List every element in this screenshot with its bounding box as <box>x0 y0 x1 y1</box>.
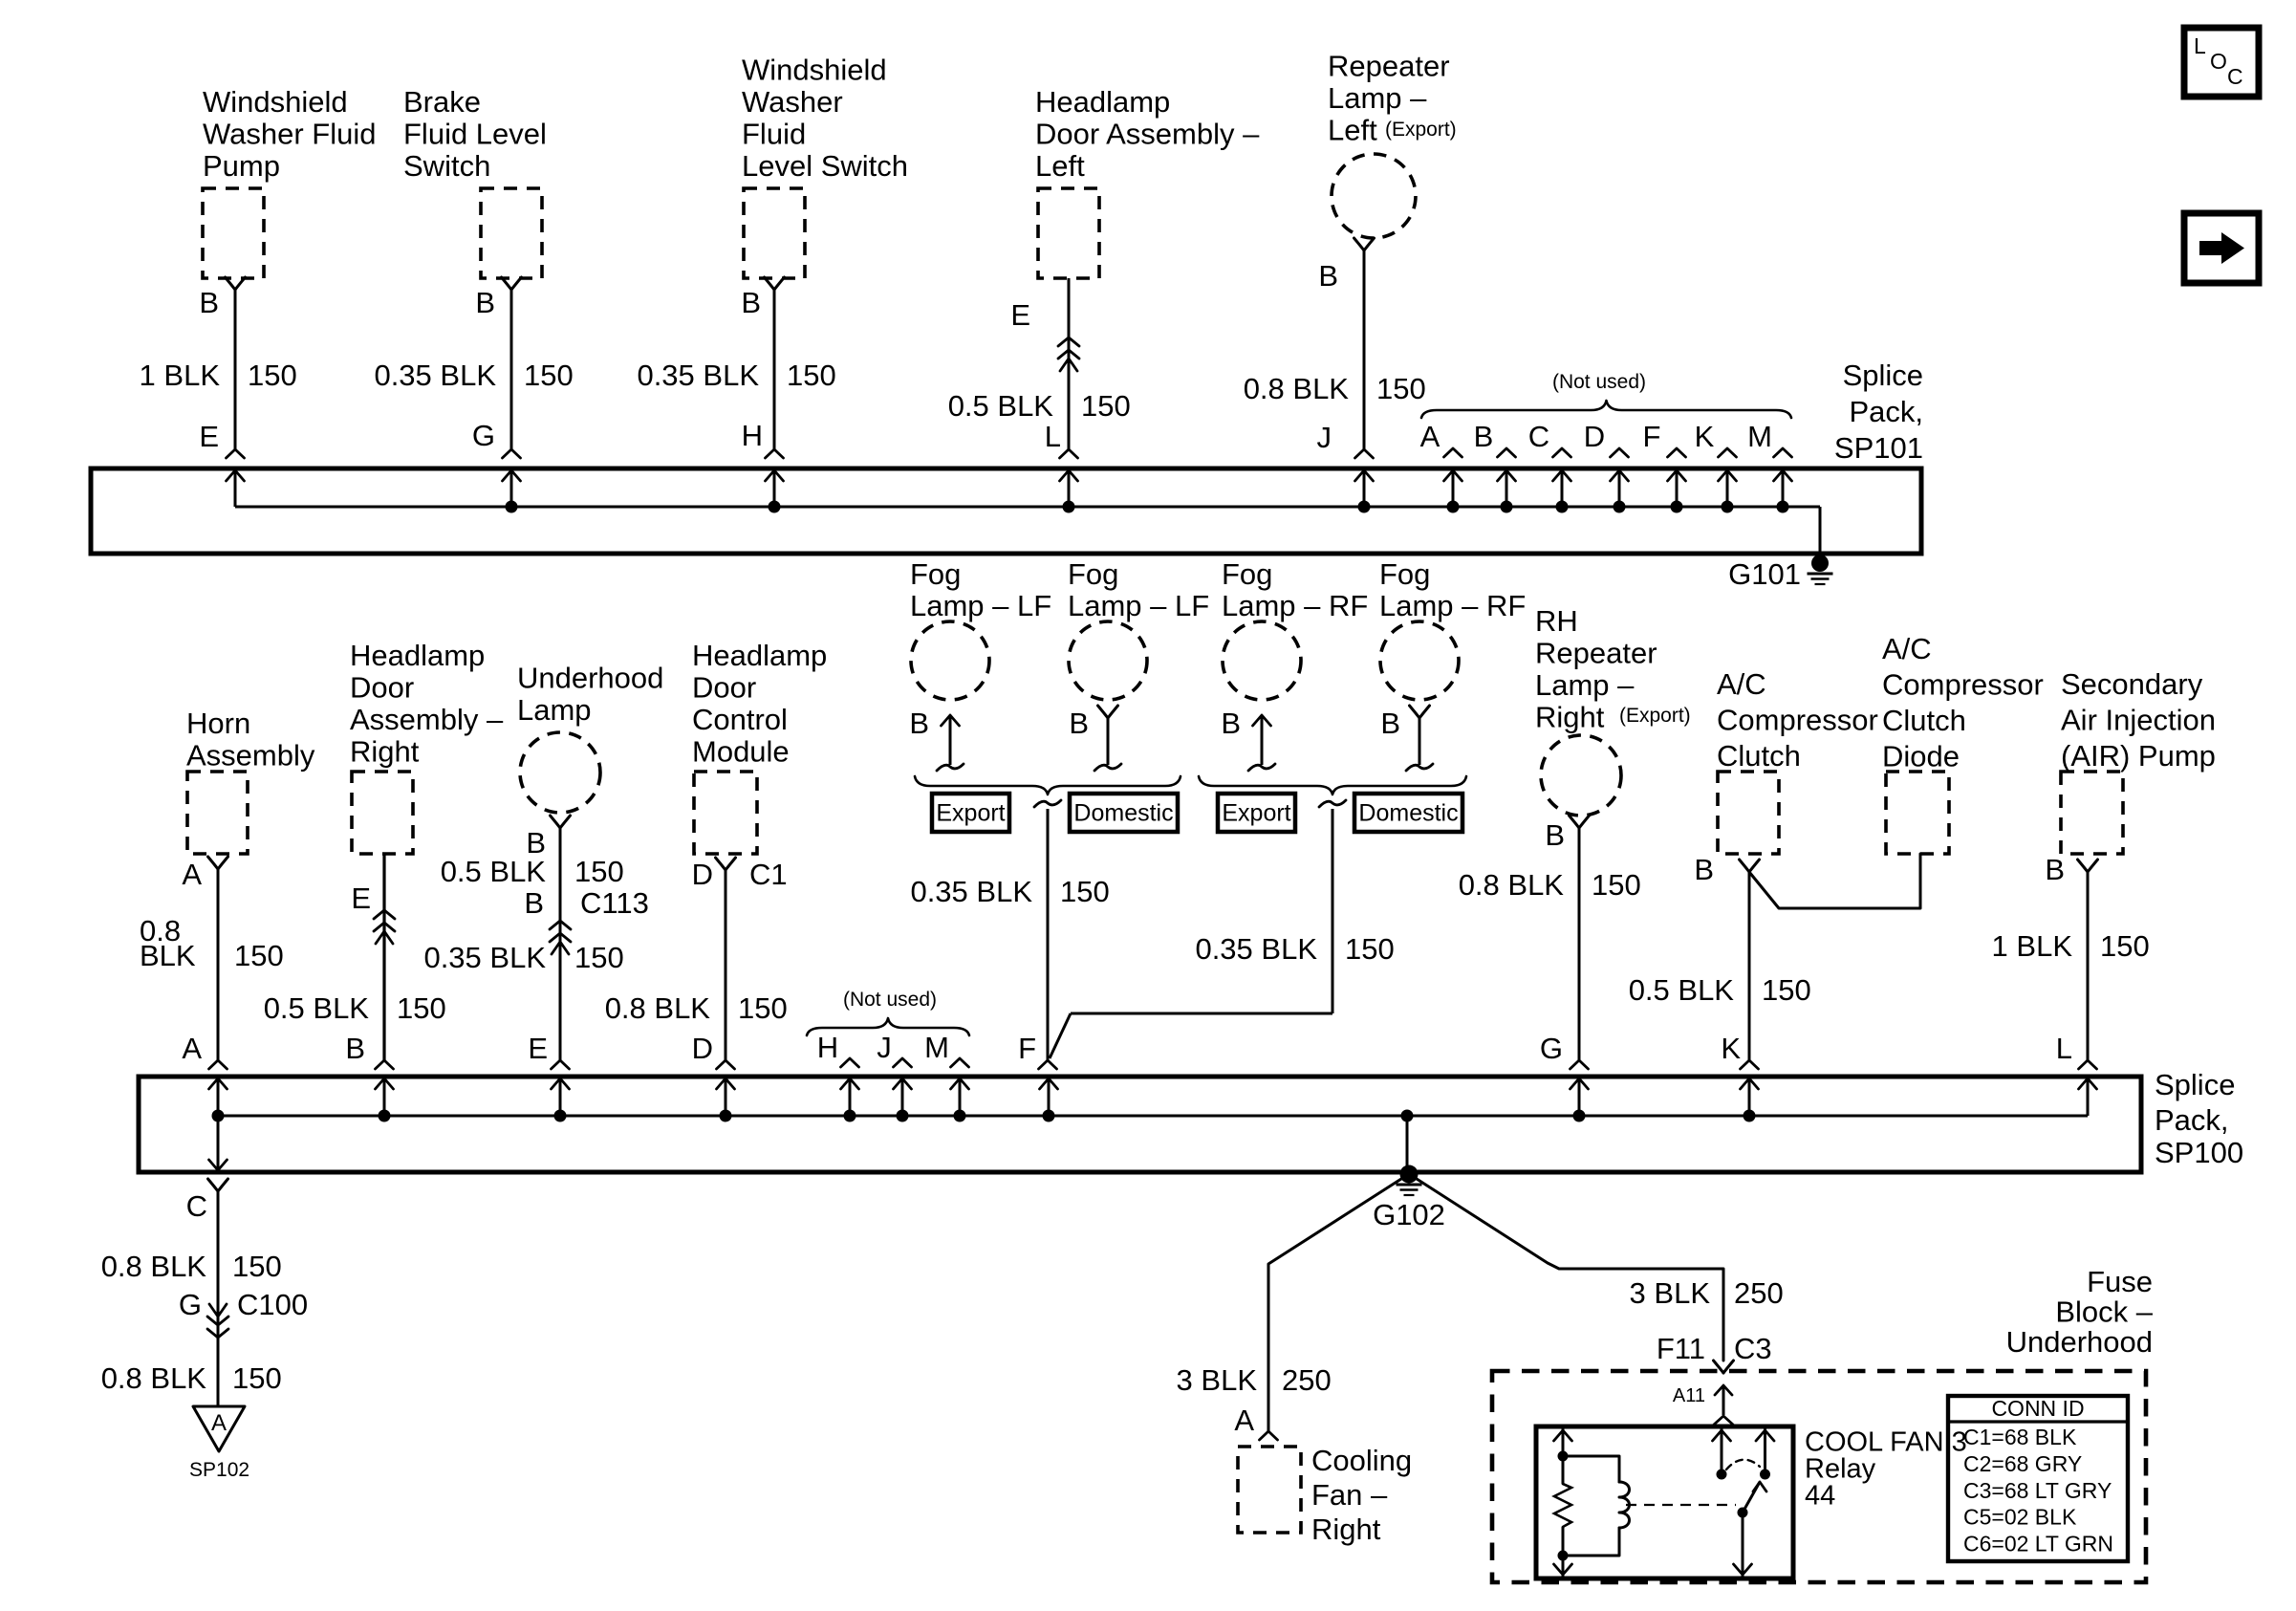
svg-text:K: K <box>1695 420 1715 453</box>
svg-text:0.8 BLK: 0.8 BLK <box>101 1250 207 1283</box>
svg-text:0.8 BLK: 0.8 BLK <box>1244 372 1350 405</box>
svg-text:150: 150 <box>2100 929 2150 963</box>
svg-text:D: D <box>692 858 713 891</box>
svg-text:150: 150 <box>1345 932 1395 966</box>
svg-text:Clutch: Clutch <box>1882 704 1966 737</box>
svg-text:250: 250 <box>1734 1276 1784 1310</box>
svg-text:Windshield: Windshield <box>203 85 348 119</box>
svg-text:L: L <box>2194 33 2206 58</box>
svg-text:B: B <box>1545 818 1565 852</box>
svg-text:B: B <box>524 886 544 920</box>
svg-text:(Not used): (Not used) <box>843 989 937 1011</box>
svg-text:Door: Door <box>350 670 414 704</box>
svg-text:Fog: Fog <box>1222 557 1272 591</box>
svg-text:150: 150 <box>397 991 446 1025</box>
svg-text:0.5 BLK: 0.5 BLK <box>264 991 370 1025</box>
svg-text:B: B <box>1221 707 1241 740</box>
svg-text:Headlamp: Headlamp <box>692 639 827 672</box>
svg-text:G: G <box>1540 1032 1563 1065</box>
svg-text:CONN ID: CONN ID <box>1991 1396 2084 1421</box>
svg-text:Level Switch: Level Switch <box>742 149 908 183</box>
svg-text:SP100: SP100 <box>2155 1136 2243 1169</box>
svg-text:C1: C1 <box>749 858 788 891</box>
svg-text:A: A <box>1234 1404 1254 1437</box>
svg-text:O: O <box>2210 49 2227 74</box>
svg-text:K: K <box>1721 1032 1741 1065</box>
svg-text:C5=02 BLK: C5=02 BLK <box>1963 1505 2077 1530</box>
svg-text:3 BLK: 3 BLK <box>1630 1276 1711 1310</box>
svg-text:250: 250 <box>1282 1363 1332 1397</box>
svg-text:C3=68 LT GRY: C3=68 LT GRY <box>1963 1478 2112 1503</box>
svg-text:Export: Export <box>1222 800 1290 827</box>
svg-text:E: E <box>351 882 371 915</box>
svg-text:Left: Left <box>1328 113 1377 146</box>
svg-text:150: 150 <box>524 359 574 392</box>
svg-text:Door: Door <box>692 670 756 704</box>
svg-text:150: 150 <box>234 939 284 972</box>
svg-text:(Not used): (Not used) <box>1552 371 1646 393</box>
svg-text:Control: Control <box>692 703 788 736</box>
svg-text:A/C: A/C <box>1717 667 1766 701</box>
svg-text:Left: Left <box>1035 149 1085 183</box>
svg-text:Diode: Diode <box>1882 739 1960 773</box>
svg-text:Pack,: Pack, <box>1849 395 1923 428</box>
svg-text:C1=68 BLK: C1=68 BLK <box>1963 1425 2077 1449</box>
svg-text:C100: C100 <box>237 1288 308 1321</box>
svg-text:Lamp: Lamp <box>517 693 592 727</box>
svg-text:D: D <box>1584 420 1605 453</box>
svg-text:C: C <box>186 1189 207 1223</box>
svg-text:150: 150 <box>574 941 624 974</box>
svg-text:0.35 BLK: 0.35 BLK <box>423 941 546 974</box>
svg-text:M: M <box>1747 420 1772 453</box>
svg-text:Windshield: Windshield <box>742 53 887 86</box>
svg-text:A/C: A/C <box>1882 632 1932 665</box>
svg-text:C6=02 LT GRN: C6=02 LT GRN <box>1963 1531 2113 1556</box>
svg-text:L: L <box>2056 1032 2072 1065</box>
svg-text:B: B <box>2045 853 2065 886</box>
svg-text:Domestic: Domestic <box>1358 800 1458 827</box>
svg-text:E: E <box>528 1032 548 1065</box>
svg-text:Compressor: Compressor <box>1882 667 2044 701</box>
svg-text:Cooling: Cooling <box>1311 1444 1412 1477</box>
svg-text:Washer Fluid: Washer Fluid <box>203 117 376 150</box>
svg-text:Air Injection: Air Injection <box>2061 703 2216 736</box>
svg-text:B: B <box>1380 707 1400 740</box>
svg-text:J: J <box>1317 421 1332 454</box>
svg-text:150: 150 <box>1762 973 1811 1007</box>
svg-text:Pump: Pump <box>203 149 280 183</box>
svg-text:150: 150 <box>787 359 836 392</box>
svg-text:A: A <box>182 1032 202 1065</box>
svg-text:0.8 BLK: 0.8 BLK <box>1459 868 1565 902</box>
svg-text:Headlamp: Headlamp <box>350 639 485 672</box>
svg-text:A: A <box>1420 420 1440 453</box>
svg-text:Splice: Splice <box>1843 359 1923 392</box>
svg-text:C: C <box>2227 64 2243 89</box>
svg-text:Fuse: Fuse <box>2087 1265 2153 1298</box>
svg-text:0.8 BLK: 0.8 BLK <box>101 1361 207 1395</box>
svg-text:0.35 BLK: 0.35 BLK <box>374 359 496 392</box>
svg-text:E: E <box>1010 298 1030 332</box>
svg-text:Door Assembly –: Door Assembly – <box>1035 117 1260 150</box>
svg-text:Lamp – RF: Lamp – RF <box>1222 589 1368 622</box>
svg-text:Right: Right <box>350 734 420 768</box>
svg-text:Right: Right <box>1535 700 1605 733</box>
svg-text:Domestic: Domestic <box>1073 800 1173 827</box>
svg-text:Clutch: Clutch <box>1717 739 1801 773</box>
svg-text:Lamp – RF: Lamp – RF <box>1379 589 1526 622</box>
svg-text:A: A <box>211 1410 227 1436</box>
svg-text:F: F <box>1643 420 1661 453</box>
svg-text:J: J <box>877 1031 892 1064</box>
svg-text:3 BLK: 3 BLK <box>1177 1363 1258 1397</box>
svg-text:Export: Export <box>936 800 1005 827</box>
svg-text:Lamp – LF: Lamp – LF <box>1068 589 1209 622</box>
svg-text:RH: RH <box>1535 604 1578 638</box>
svg-text:0.35 BLK: 0.35 BLK <box>910 875 1032 908</box>
svg-text:Lamp – LF: Lamp – LF <box>910 589 1051 622</box>
svg-text:Repeater: Repeater <box>1328 49 1450 82</box>
svg-text:B: B <box>1069 707 1089 740</box>
svg-text:B: B <box>741 286 761 319</box>
svg-text:Washer: Washer <box>742 85 843 119</box>
svg-text:1 BLK: 1 BLK <box>1992 929 2073 963</box>
svg-text:F11: F11 <box>1657 1332 1705 1365</box>
svg-text:Module: Module <box>692 734 790 768</box>
svg-text:Underhood: Underhood <box>2006 1325 2153 1359</box>
svg-text:Pack,: Pack, <box>2155 1103 2229 1137</box>
svg-text:B: B <box>1474 420 1494 453</box>
svg-text:0.5 BLK: 0.5 BLK <box>1629 973 1735 1007</box>
svg-text:H: H <box>742 419 763 452</box>
svg-text:L: L <box>1045 420 1061 453</box>
svg-text:Assembly: Assembly <box>186 738 315 772</box>
svg-text:150: 150 <box>232 1361 282 1395</box>
svg-text:D: D <box>692 1032 713 1065</box>
svg-text:B: B <box>909 707 929 740</box>
svg-text:Fan –: Fan – <box>1311 1478 1388 1512</box>
svg-text:1 BLK: 1 BLK <box>140 359 221 392</box>
svg-text:G102: G102 <box>1373 1198 1445 1231</box>
svg-text:(Export): (Export) <box>1619 705 1691 727</box>
svg-text:150: 150 <box>1081 389 1131 423</box>
svg-text:C3: C3 <box>1734 1332 1772 1365</box>
svg-text:Lamp –: Lamp – <box>1328 81 1427 115</box>
svg-text:Secondary: Secondary <box>2061 667 2203 701</box>
svg-text:Fog: Fog <box>1068 557 1118 591</box>
svg-text:Splice: Splice <box>2155 1068 2235 1101</box>
svg-text:A: A <box>182 858 202 891</box>
svg-text:Lamp –: Lamp – <box>1535 668 1635 702</box>
svg-text:Fluid: Fluid <box>742 117 806 150</box>
svg-text:B: B <box>345 1032 365 1065</box>
svg-text:G: G <box>179 1288 202 1321</box>
svg-text:G101: G101 <box>1728 557 1801 591</box>
svg-text:B: B <box>1318 259 1338 293</box>
svg-text:C2=68 GRY: C2=68 GRY <box>1963 1451 2082 1476</box>
svg-text:Underhood: Underhood <box>517 661 663 694</box>
svg-text:SP102: SP102 <box>189 1459 249 1481</box>
svg-text:G: G <box>472 419 495 452</box>
svg-text:150: 150 <box>574 855 624 888</box>
svg-text:44: 44 <box>1805 1480 1835 1511</box>
svg-text:0.5 BLK: 0.5 BLK <box>948 389 1054 423</box>
svg-text:Repeater: Repeater <box>1535 636 1657 669</box>
svg-text:Right: Right <box>1311 1513 1381 1546</box>
svg-text:Block –: Block – <box>2055 1295 2153 1328</box>
svg-text:E: E <box>199 420 219 453</box>
svg-text:A11: A11 <box>1673 1385 1705 1406</box>
svg-text:Compressor: Compressor <box>1717 703 1878 736</box>
svg-text:150: 150 <box>248 359 297 392</box>
svg-text:B: B <box>1694 853 1714 886</box>
svg-text:B: B <box>199 286 219 319</box>
svg-text:C113: C113 <box>580 886 649 920</box>
svg-text:Brake: Brake <box>403 85 481 119</box>
svg-text:0.35 BLK: 0.35 BLK <box>1195 932 1317 966</box>
svg-text:150: 150 <box>1060 875 1110 908</box>
svg-text:Fog: Fog <box>1379 557 1430 591</box>
svg-text:F: F <box>1018 1032 1036 1065</box>
svg-text:C: C <box>1528 420 1549 453</box>
svg-text:(AIR) Pump: (AIR) Pump <box>2061 739 2216 773</box>
svg-text:0.5 BLK: 0.5 BLK <box>441 855 547 888</box>
svg-text:M: M <box>924 1031 949 1064</box>
svg-text:Headlamp: Headlamp <box>1035 85 1170 119</box>
svg-text:Fluid Level: Fluid Level <box>403 117 547 150</box>
svg-text:Horn: Horn <box>186 707 250 740</box>
svg-text:(Export): (Export) <box>1385 119 1457 141</box>
svg-text:150: 150 <box>1376 372 1426 405</box>
svg-text:0.35 BLK: 0.35 BLK <box>637 359 759 392</box>
svg-text:BLK: BLK <box>140 939 196 972</box>
svg-text:150: 150 <box>232 1250 282 1283</box>
svg-text:Fog: Fog <box>910 557 961 591</box>
svg-text:H: H <box>817 1031 838 1064</box>
svg-text:Assembly –: Assembly – <box>350 703 504 736</box>
svg-text:150: 150 <box>738 991 788 1025</box>
svg-text:SP101: SP101 <box>1834 431 1923 465</box>
svg-text:0.8 BLK: 0.8 BLK <box>605 991 711 1025</box>
svg-text:Switch: Switch <box>403 149 490 183</box>
svg-text:B: B <box>475 286 495 319</box>
svg-text:150: 150 <box>1592 868 1641 902</box>
